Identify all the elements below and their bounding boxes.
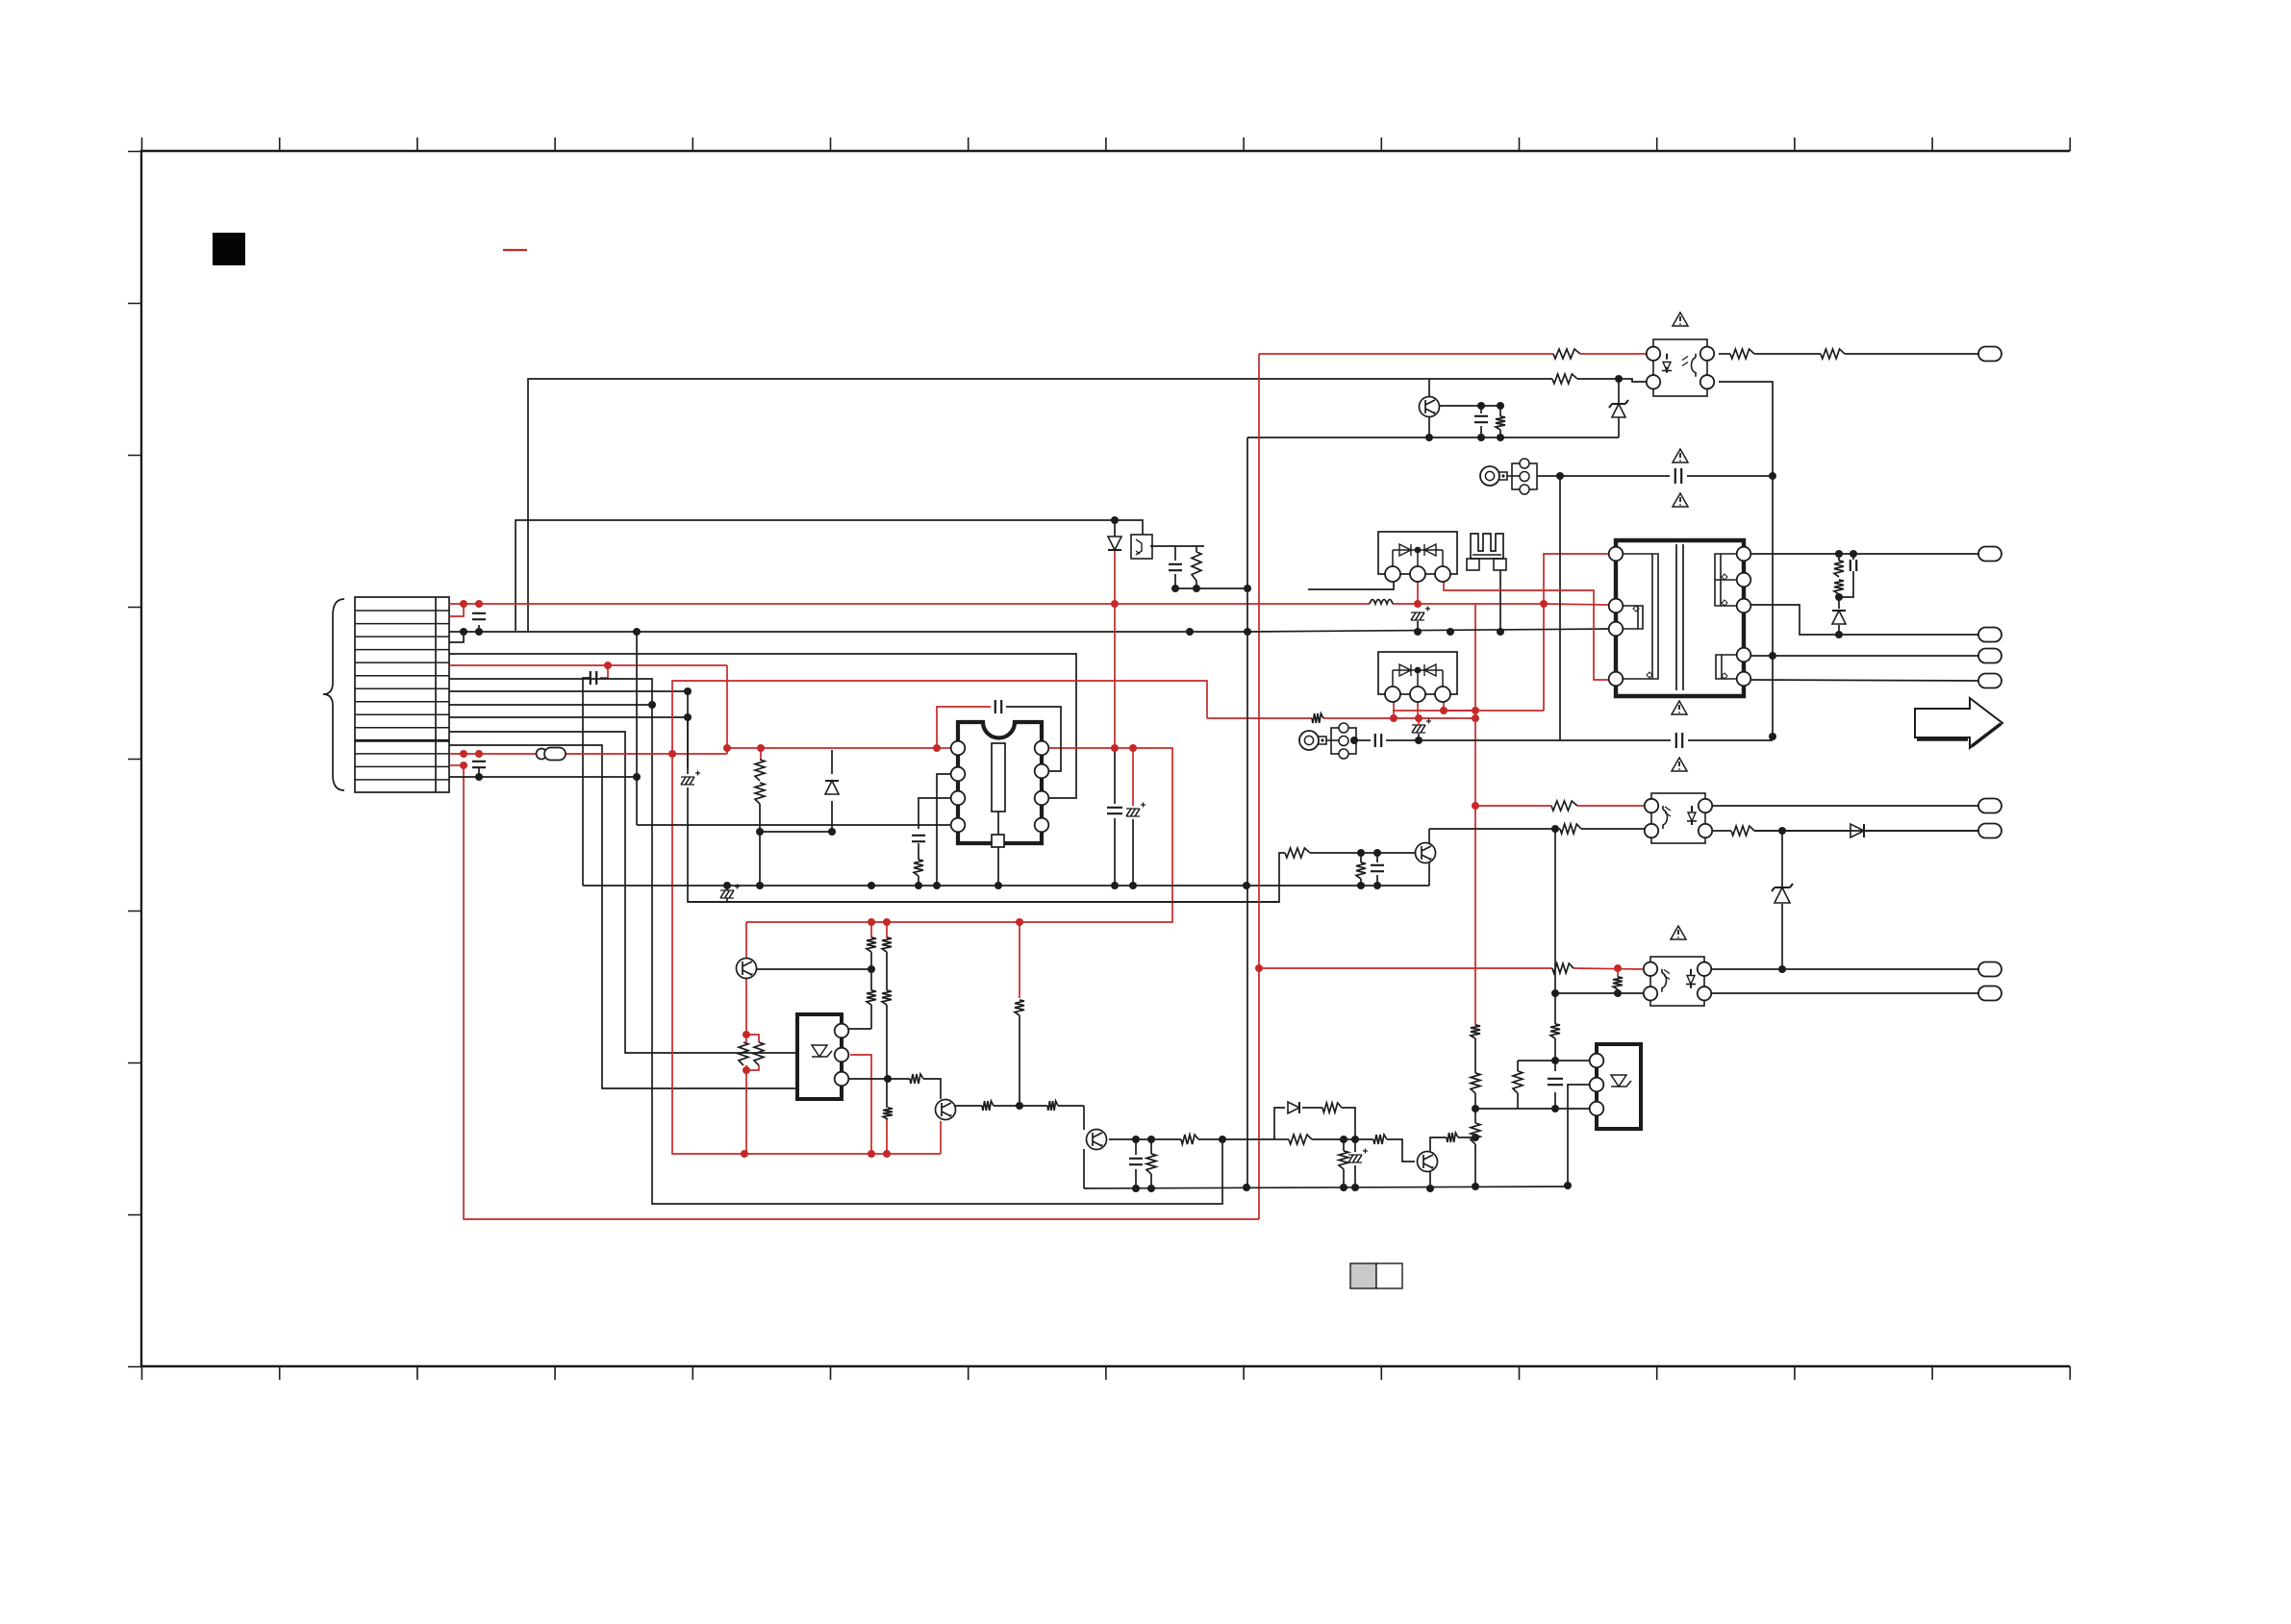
- warning symbol W5: [1672, 758, 1687, 771]
- junction cf: [1426, 1185, 1434, 1192]
- junction ai: [868, 965, 875, 973]
- ring terminal E2: [1299, 731, 1319, 750]
- wire Q4 base row: [1310, 852, 1415, 854]
- resistor R4: [1552, 374, 1577, 384]
- capacitor (electrolytic) C9 (x1178): [1126, 803, 1145, 817]
- wire opto3 out1: [1708, 968, 1978, 970]
- wire heatsink drop: [1499, 570, 1501, 632]
- resistor R34: [1146, 1154, 1156, 1174]
- junction g2: [633, 773, 641, 781]
- wire C22 leads: [726, 886, 728, 890]
- junction g3: [633, 628, 641, 636]
- junction y: [1472, 802, 1479, 810]
- resistor R11 (PC4 input): [1192, 552, 1201, 581]
- wire IC pin8 red bus: [746, 748, 1172, 922]
- junction ct: [1415, 737, 1422, 744]
- wire red bus row1: [449, 603, 1370, 605]
- junction bs: [1778, 965, 1786, 973]
- optocoupler PC2: [1651, 793, 1705, 843]
- wire RC rail right: [1499, 406, 1501, 416]
- junction bc: [1193, 585, 1200, 592]
- wire opto PC1 feed red: [1259, 353, 1553, 355]
- wire opto2 out2 b: [1754, 830, 1978, 832]
- optocoupler PC3: [1650, 957, 1704, 1006]
- wire TL431b bottom rail: [1475, 1108, 1590, 1110]
- wire transformer pin1 out: [1750, 553, 1978, 555]
- warning symbol W4: [1672, 701, 1687, 714]
- wire electrolytic C12 join: [1418, 734, 1420, 740]
- junction cm: [1219, 1136, 1226, 1143]
- junction n: [684, 713, 692, 721]
- resistor R36: [1322, 1103, 1342, 1112]
- wire x1397 R drop b: [1343, 1169, 1345, 1188]
- capacitor (electrolytic) C11 (upper pack): [1411, 607, 1430, 621]
- capacitor C17 (TL431b): [1548, 1079, 1563, 1085]
- wire row6 cap branch: [600, 665, 608, 678]
- resistor R29 (parallel): [739, 1042, 748, 1065]
- wire transformer pin4 out: [1750, 655, 1978, 657]
- wire res x1197 leads b: [1150, 1174, 1152, 1188]
- junction cn: [884, 1075, 892, 1083]
- pin U1 pin7: [1035, 764, 1049, 779]
- wire long vertical x1297: [1246, 437, 1248, 1188]
- resistor R32 (Q3 base): [1047, 1101, 1058, 1111]
- junction bt: [1551, 825, 1559, 833]
- junction p: [1111, 600, 1119, 608]
- wire x1409 electro drop: [1354, 1139, 1356, 1152]
- connector CN1 (16-pin): [355, 597, 449, 792]
- wire divider drop: [760, 748, 762, 760]
- junction cy: [684, 687, 692, 695]
- wire RC pair tops: [1174, 546, 1176, 561]
- heatsink: [1471, 534, 1503, 559]
- shunt regulator U3: [1597, 1044, 1641, 1129]
- wire x1178 electrolytic to ground: [1132, 819, 1134, 886]
- wire red 747 rail: [1207, 717, 1312, 719]
- junction br: [1778, 827, 1786, 835]
- wire PC1 out row1 b: [1754, 353, 1821, 355]
- pin U1 pin3: [951, 791, 966, 806]
- junction v: [1472, 707, 1479, 714]
- wire chain parallel branch: [1274, 1108, 1285, 1139]
- junction ch: [1351, 1136, 1359, 1143]
- wire row13 red supply rail: [449, 753, 727, 755]
- section marker (black square): [213, 233, 245, 265]
- wire x715 electro gap: [687, 717, 689, 768]
- wire opto2 red feed: [1475, 805, 1551, 807]
- junction cg: [1340, 1136, 1347, 1143]
- wire parallel R jumpers: [746, 1035, 759, 1042]
- wire divider to ground bus: [759, 832, 761, 886]
- junction e: [460, 750, 467, 758]
- wire chain y1185: [1198, 1138, 1274, 1140]
- wire col1912 to diode: [1838, 597, 1840, 609]
- wire Q5 collector: [1430, 1137, 1447, 1151]
- wire C13 bottom: [1839, 571, 1853, 597]
- wire x1432 cap leads b: [1376, 875, 1378, 886]
- resistor R35: [1289, 1135, 1312, 1144]
- wire y766 cap line b: [1688, 739, 1773, 741]
- fuse F1: [537, 749, 547, 760]
- wire cap loop right side: [1006, 707, 1061, 771]
- junction cu: [1769, 733, 1776, 740]
- photocoupler PC4 (detector): [1131, 535, 1152, 559]
- junction bf: [1477, 402, 1485, 410]
- wire opto2 out2: [1709, 830, 1731, 832]
- resistor R40 (Q4 base): [1285, 848, 1310, 858]
- junction a: [460, 600, 467, 608]
- terminal J5: [1978, 674, 2001, 688]
- wire row11 staircase to shunt reg: [449, 732, 797, 1053]
- pin U1 pin6: [1035, 791, 1049, 806]
- resistor R33 (Q3 coll): [1181, 1135, 1198, 1144]
- transistor Q5: [1418, 1152, 1438, 1172]
- junction af: [868, 1150, 875, 1158]
- terminal J2: [1978, 547, 2001, 562]
- wire row3 ground bus: [449, 631, 1247, 633]
- wire R5 bottom stub: [1499, 430, 1501, 437]
- optocoupler PC1: [1653, 339, 1707, 396]
- junction bq: [1835, 631, 1843, 638]
- wire cap C3 bottom lead: [478, 768, 480, 777]
- junction bm: [1769, 652, 1776, 660]
- wire zener to rail: [1618, 417, 1620, 437]
- transformer T1 secondary winding: [1715, 554, 1737, 606]
- wire row12 staircase to shunt reg: [449, 745, 797, 1088]
- capacitor (electrolytic) C21 (x715): [681, 771, 700, 786]
- junction h: [460, 762, 467, 769]
- junction ao: [994, 882, 1002, 889]
- junction an: [933, 882, 941, 889]
- junction be: [1615, 375, 1623, 383]
- junction cc: [1243, 1184, 1250, 1191]
- wire zener drop x1683: [1618, 379, 1620, 404]
- junction ci: [1132, 1136, 1140, 1143]
- junction ax: [1497, 628, 1504, 636]
- capacitor C7 (x955): [912, 836, 925, 841]
- pin U1 pin8: [1035, 741, 1049, 756]
- resistor R15 (PC2 row2): [1560, 824, 1581, 834]
- junction z: [1614, 964, 1622, 972]
- junction cd: [1340, 1184, 1347, 1191]
- wire zener chain: [1781, 831, 1783, 887]
- capacitor C2 (connector filter): [472, 613, 486, 619]
- junction w: [1440, 707, 1448, 714]
- terminal J4: [1978, 649, 2001, 663]
- resistor R43 (divider): [755, 783, 765, 804]
- wire Q6 emitter: [1428, 416, 1430, 437]
- pin T1 pin1: [1609, 547, 1624, 562]
- junction cj: [1147, 1136, 1155, 1143]
- capacitor (electrolytic) C22 (x756): [720, 885, 740, 899]
- wire opto3 BL row: [1555, 992, 1644, 994]
- junction ck: [1132, 1185, 1140, 1192]
- junction cb: [1564, 1182, 1572, 1189]
- warning symbol W3: [1673, 493, 1688, 507]
- wire upper diode pack left pin lead: [1308, 582, 1394, 589]
- wire x1409 electro drop b: [1354, 1165, 1356, 1188]
- capacitor C5 (IC pin1-pin7): [995, 700, 1001, 713]
- junction ak: [1016, 1102, 1023, 1110]
- wire x1060 drop lower: [1019, 1015, 1020, 1106]
- wire Q2 base: [923, 1079, 941, 1099]
- wire x1432 cap leads: [1376, 853, 1378, 862]
- wire bottom bus y1236: [1084, 1187, 1568, 1188]
- wire TL431a pin1 row: [848, 1028, 871, 1030]
- pin U1 pin4: [951, 818, 966, 833]
- wire opto3 out2: [1708, 992, 1978, 994]
- wire Q2 collector row c: [1083, 1106, 1085, 1130]
- wire red vertical x1534: [1474, 604, 1476, 1025]
- junction cs: [1350, 737, 1358, 744]
- capacitor C15 (y766 line): [1676, 733, 1682, 748]
- pin T1 pin4: [1609, 672, 1624, 687]
- wire chain to Q5 base: [1387, 1139, 1415, 1162]
- transformer T1 frame: [1616, 540, 1744, 696]
- wire ground bus y657 right: [1247, 629, 1609, 632]
- junction aa: [868, 918, 875, 926]
- junction cw: [756, 828, 764, 836]
- resistor R12: [1834, 561, 1844, 577]
- wire divider mid: [760, 804, 832, 832]
- wire red x699 drop to bottom cluster: [672, 754, 744, 1154]
- wire transformer pin5 out: [1750, 680, 1978, 681]
- wire x1415 R leads: [1360, 853, 1362, 862]
- wire loop 2 (row4 to photocoupler PC4): [516, 520, 1143, 631]
- capacitor (electrolytic) C12 (lower pack): [1412, 719, 1431, 734]
- wire x1617 drop: [1554, 829, 1556, 993]
- wire TL431a pin3 row: [848, 1078, 910, 1080]
- junction bo: [1850, 550, 1857, 558]
- wire x1682 R bottom: [1617, 989, 1619, 993]
- pin T1 pin6: [1737, 573, 1751, 587]
- off-page arrow: [1915, 698, 2002, 748]
- wire row8 staircase: [449, 691, 688, 774]
- terminal J3: [1978, 628, 2001, 642]
- wire IC pin3 branch: [919, 798, 950, 829]
- wire zener chain b: [1781, 904, 1783, 969]
- junction cv: [1472, 714, 1479, 722]
- wire col922 seg4: [886, 1079, 888, 1108]
- capacitor C8 (x1159): [1107, 808, 1122, 813]
- wire row7 staircase: [449, 679, 1222, 1204]
- capacitor C6: [1474, 416, 1488, 422]
- wire parallel R jumpers b: [746, 1065, 759, 1070]
- junction av: [1244, 628, 1251, 636]
- junction bu: [1551, 989, 1559, 997]
- pin T1 pin9: [1737, 672, 1751, 687]
- red dash annotation: [503, 249, 527, 251]
- wire lower pack right pin red: [1443, 702, 1445, 711]
- pin T1 pin5: [1737, 547, 1751, 562]
- capacitor C10 (PC4 input): [1169, 564, 1182, 570]
- wire red rail A to IC: [727, 747, 937, 749]
- wire chain R2 to R3: [1312, 1138, 1373, 1140]
- junction ad: [743, 1031, 750, 1038]
- wire chain parallel diode-R mid: [1302, 1107, 1322, 1109]
- wire opto2 red feed b: [1577, 805, 1645, 807]
- junction bh: [1425, 434, 1433, 441]
- diode D8: [825, 781, 839, 794]
- resistor R27: [882, 990, 892, 1005]
- junction bi: [1477, 434, 1485, 441]
- wire red bus row1 b: [1393, 603, 1544, 605]
- wire cap C3 top lead: [478, 753, 480, 756]
- wire x955 RC chain mid: [918, 843, 919, 860]
- wire row10: [449, 716, 688, 718]
- capacitor C18: [1129, 1159, 1143, 1164]
- wire R13 to dot: [1838, 594, 1840, 597]
- resistor R32b (Q2 row): [982, 1101, 994, 1111]
- wire cap C2 bottom lead: [478, 625, 480, 632]
- wire PC1 out row1 c: [1845, 353, 1978, 355]
- junction ca: [1472, 1183, 1479, 1190]
- junction bg: [1497, 402, 1504, 410]
- junction ab: [883, 918, 891, 926]
- junction bx: [1551, 1105, 1559, 1112]
- wire col922 seg: [886, 922, 888, 937]
- wire col906 seg2: [870, 952, 872, 990]
- wire lower pack center pin lead: [1417, 702, 1419, 718]
- legend box: [1350, 1263, 1376, 1288]
- junction ah: [741, 1150, 748, 1158]
- wire C22 leads b: [726, 898, 728, 902]
- junction x: [1415, 714, 1422, 722]
- junction cq: [1357, 882, 1365, 889]
- wire row4 jog: [449, 632, 464, 642]
- wire Q5 R to column: [1458, 1137, 1475, 1138]
- wire PC1 out row1: [1719, 353, 1730, 355]
- wire RC pair R bottom: [1196, 581, 1197, 588]
- wire Q3 base R leads b: [1058, 1105, 1084, 1107]
- wire row6 red: [449, 664, 727, 666]
- wire TL431b left R branch b: [1517, 1093, 1519, 1109]
- wire PC4 input RC rail: [1150, 545, 1204, 547]
- wire opto PC1 feed red2: [1580, 353, 1647, 355]
- wire IC pin4 line: [637, 824, 950, 826]
- IC U1 body (8-pin DIP): [958, 722, 1042, 843]
- wire ring2 mid pin line: [1354, 739, 1371, 741]
- resistor R1: [1730, 349, 1754, 359]
- wire Q4 emitter: [1428, 862, 1430, 886]
- junction au: [756, 882, 764, 889]
- wire row5 to IC pin6: [449, 654, 1076, 798]
- resistor R10 (x955): [914, 860, 923, 876]
- wire ring1 box to line: [1537, 475, 1543, 477]
- wire red Q2 emitter: [940, 1121, 942, 1154]
- wire cap C6 lead2: [1480, 426, 1482, 437]
- pin U1 pin1: [951, 741, 966, 756]
- warning symbol W2: [1673, 449, 1688, 462]
- wire x1617 R to rail: [1554, 1038, 1556, 1061]
- wire long red vertical x1309: [1258, 354, 1260, 1219]
- wire TL431b cap branch b: [1554, 1092, 1556, 1109]
- wire red bus to transformer pin2: [1544, 604, 1609, 605]
- ring terminal E1: [1480, 466, 1499, 486]
- wire Q4 collector: [1428, 829, 1430, 843]
- pin U1 pin2: [951, 767, 966, 782]
- connector CN1 brace: [323, 599, 344, 790]
- wire ring terminal line b: [1687, 475, 1773, 477]
- wire Q1 collector row: [757, 968, 871, 970]
- wire x1397 R drop: [1343, 1139, 1345, 1151]
- wire x955 R bottom: [918, 876, 919, 886]
- resistor R6: [1312, 713, 1323, 723]
- wire Q5 emitter: [1429, 1171, 1431, 1188]
- wire red 747 rail b: [1323, 717, 1475, 719]
- wire column x1534 segs b: [1474, 1093, 1476, 1123]
- wire x1622 vertical: [1559, 476, 1561, 740]
- junction r: [1129, 744, 1137, 752]
- wire Q1 emitter red to bus b: [745, 1065, 747, 1154]
- junction bz: [1472, 1134, 1479, 1141]
- wire TL431b pin2 drop: [1568, 1085, 1590, 1186]
- wire PC2 out diode line b: [1864, 830, 1978, 832]
- resistor R16 (PC2 out): [1731, 826, 1754, 836]
- pin T1 pin7: [1737, 599, 1751, 613]
- wire cap C2 top lead: [478, 604, 480, 608]
- resistor R26: [867, 990, 876, 1005]
- wire row9: [449, 704, 652, 706]
- transformer T1 primary winding: [1623, 554, 1658, 679]
- resistor R28: [883, 1108, 893, 1119]
- capacitor C3 (connector filter): [472, 762, 486, 767]
- wire x1617 upper gap: [1554, 993, 1556, 1024]
- resistor R30 (parallel): [754, 1042, 764, 1065]
- transistor Q3: [1087, 1130, 1107, 1150]
- wire row14 red: [449, 764, 464, 766]
- resistor R2: [1821, 349, 1845, 359]
- wire Q2 collector row: [955, 1105, 982, 1107]
- resistor R41: [1356, 862, 1366, 879]
- wire x1415 R leads b: [1360, 879, 1362, 886]
- wire chain left stub: [1274, 1138, 1289, 1140]
- wire col922 red bottom: [886, 1119, 888, 1154]
- junction bb: [1171, 585, 1179, 592]
- junction b: [475, 600, 483, 608]
- junction bn: [1835, 550, 1843, 558]
- dual diode pack DP2: [1378, 652, 1457, 694]
- wire TL431b cap branch: [1554, 1061, 1556, 1071]
- junction g: [475, 773, 483, 781]
- junction o: [1111, 516, 1119, 524]
- resistor R13: [1834, 580, 1844, 594]
- resistor R38: [1339, 1151, 1348, 1169]
- wire ground bus y921: [583, 885, 1429, 887]
- wire ground bus y938: [688, 901, 1279, 903]
- transistor Q6: [1420, 397, 1440, 417]
- wire x1178 electrolytic drop: [1132, 748, 1134, 806]
- junction ag: [883, 1150, 891, 1158]
- diode D3 (PC4 input): [1108, 537, 1121, 550]
- resistor R31 (Q2 base): [910, 1074, 923, 1084]
- border frame: [141, 151, 2070, 1366]
- wire IC pin2 drop: [937, 774, 950, 886]
- junction cp: [1373, 849, 1381, 857]
- wire red row6 bus riser: [672, 681, 1207, 754]
- resistor R42 (divider): [755, 760, 765, 781]
- terminal J1: [1978, 347, 2001, 362]
- transistor Q1: [737, 959, 757, 979]
- resistor R37: [1373, 1135, 1387, 1144]
- capacitor C20: [1371, 865, 1384, 871]
- wire row14 red long drop: [464, 765, 1259, 1219]
- wire x756 red link: [726, 665, 728, 754]
- junction x2: [1390, 714, 1397, 722]
- wire red bottom bus: [744, 1153, 941, 1155]
- resistor R22 (col1534): [1471, 1073, 1480, 1093]
- wire red bus drop to Q1: [745, 922, 747, 959]
